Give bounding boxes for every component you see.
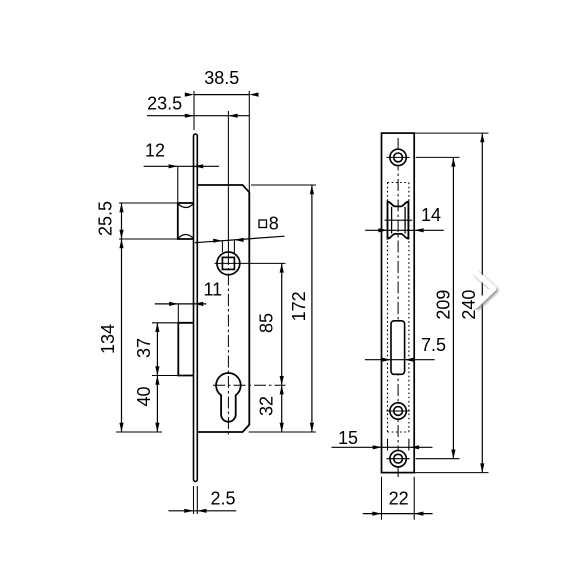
dimension 22 (faceplate width) (381, 477, 383, 520)
hidden lock case (dotted) (387, 183, 389, 433)
svg-text:7.5: 7.5 (421, 335, 446, 355)
lock case body (left view) (197, 185, 249, 432)
dimension 32 (281, 385, 283, 432)
dimension 172 (251, 184, 316, 186)
svg-text:172: 172 (289, 291, 309, 321)
svg-text:134: 134 (98, 324, 118, 354)
svg-text:14: 14 (421, 205, 441, 225)
dimension 11 (155, 303, 206, 305)
svg-text:85: 85 (257, 313, 277, 333)
dimension 2.5 (faceplate thickness) (193, 486, 195, 514)
svg-text:37: 37 (134, 338, 154, 358)
svg-text:22: 22 (389, 489, 409, 509)
deadbolt (left view) (178, 323, 193, 376)
dimension 7.5 (slot width) (365, 359, 435, 361)
dimension 240 (faceplate length) (414, 132, 488, 134)
faceplate (side view, left) (194, 134, 198, 482)
spindle square hole 8mm (222, 257, 234, 269)
spindle horizontal centerline (215, 262, 286, 264)
svg-text:12: 12 (145, 141, 165, 161)
svg-text:25.5: 25.5 (96, 201, 116, 236)
spindle follower circle (217, 252, 240, 275)
dimension 15 (case width) (387, 439, 389, 451)
dimension 25.5 (left) (119, 202, 177, 204)
top screw hole (390, 149, 406, 165)
svg-text:40: 40 (134, 386, 154, 406)
dimension 85 (281, 263, 283, 385)
euro profile cylinder hole (216, 373, 241, 422)
dimension 23.5 (147, 115, 249, 117)
svg-text:38.5: 38.5 (204, 68, 239, 88)
dimension 37 (152, 322, 178, 324)
dimension 8 square (leader) (221, 241, 223, 253)
handing chevron symbol (476, 273, 494, 305)
vertical centerline (right view) (397, 138, 399, 477)
roller latch (front view) (388, 202, 409, 239)
svg-text:23.5: 23.5 (147, 94, 182, 114)
dimension 134 (left) (116, 431, 162, 433)
svg-text:209: 209 (434, 290, 454, 320)
bolt slot 7.5mm (391, 321, 405, 375)
middle screw hole (390, 403, 406, 419)
cylinder horizontal centerline (213, 384, 286, 386)
dimension 40 (156, 376, 158, 433)
dimension 14 (roller width) (365, 229, 444, 231)
vertical centerline (spindle/cylinder axis) (227, 111, 229, 253)
bottom screw hole (390, 451, 406, 467)
faceplate (front view, right) (382, 133, 415, 473)
dimension 209 (screw distance) (416, 156, 460, 158)
svg-text:11: 11 (203, 280, 222, 300)
svg-text:15: 15 (338, 428, 358, 448)
dimension 38.5 (top) (193, 91, 195, 130)
svg-text:2.5: 2.5 (210, 489, 235, 509)
latch bolt (left view) (178, 203, 194, 239)
svg-text:32: 32 (257, 396, 277, 416)
dimension 12 (144, 165, 219, 167)
svg-text:8: 8 (269, 214, 279, 234)
